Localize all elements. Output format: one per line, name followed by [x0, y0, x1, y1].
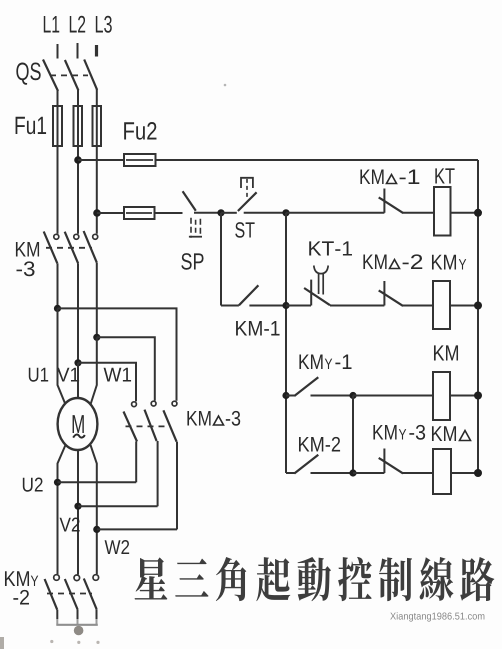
wire U2 to KM-delta-3 pole1 — [58, 481, 137, 483]
wire KMY pole1 to star bus — [56, 610, 58, 619]
wire control row1 left — [97, 212, 126, 214]
wire KM-delta coil to right rail — [451, 472, 478, 474]
button ST blade — [238, 192, 257, 211]
wire self-hold branch down — [220, 213, 222, 306]
node L1 label — [44, 16, 59, 33]
motor M1 letter — [73, 415, 84, 433]
switch QS blade 3 — [84, 60, 97, 90]
contact KM-2 blade — [294, 455, 318, 474]
wire QS to Fu1 pole1 — [57, 90, 59, 106]
wire motor lead W1 — [91, 337, 97, 404]
contactor KMY-2 label KM — [5, 571, 29, 586]
wire W2 to KM-delta-3 pole3 — [97, 528, 177, 530]
contact KM-delta-1 label -1 — [400, 170, 420, 184]
terminal U1 label — [29, 368, 48, 382]
wire through Fu2 bottom — [126, 212, 152, 214]
terminal V2 label — [60, 518, 80, 532]
contact KT-1 blade — [304, 288, 330, 305]
contact KMY-1 label -1 — [335, 355, 351, 369]
wire node to KT-1 — [286, 305, 311, 307]
terminal U2 label — [23, 478, 43, 492]
node junction V2 — [74, 503, 81, 510]
node junction row3 left — [282, 392, 289, 399]
wire phase C down — [96, 146, 98, 234]
contact KM-delta-3 blade 2 — [145, 410, 157, 441]
fuse Fu2 label — [124, 122, 156, 140]
title text 星三角起動控制線路 — [135, 557, 495, 601]
button ST actuator — [241, 178, 253, 188]
coil KMY label Y — [459, 259, 466, 269]
contact KMY-1 label KM — [299, 355, 322, 369]
wire L2 stub — [77, 43, 79, 59]
wire KM-delta-3 pole1 down — [135, 442, 137, 483]
node junction right rail row1 — [474, 209, 482, 217]
wire Fu2 to SP — [155, 212, 183, 214]
button ST label — [235, 222, 254, 238]
node junction U2 — [54, 479, 61, 486]
contact KM-delta-2 blade — [379, 290, 403, 306]
fuse Fu1 element 3 — [93, 106, 102, 146]
coil KT — [434, 187, 451, 236]
contact KT-1 bar — [310, 280, 312, 306]
wire row1 to KM-delta-1 — [286, 212, 384, 214]
wire KM coil to right rail — [450, 395, 478, 397]
contact KMY-2 blade 1 — [45, 579, 58, 610]
corner smudge — [0, 637, 4, 649]
terminal V1 label — [57, 368, 79, 382]
terminal W1 label — [104, 368, 131, 382]
watermark Xiangtang1986.51.com — [390, 612, 484, 621]
contactor KMY-2 label -2 — [13, 590, 29, 605]
coil KM-delta label KM — [432, 426, 456, 441]
contact KM-1 label — [236, 321, 279, 335]
node junction SP-ST — [217, 209, 224, 216]
wire KMY pole2 to star bus — [77, 610, 79, 620]
contact KM-delta-2 label triangle — [390, 260, 400, 269]
coil KM label — [434, 345, 458, 360]
contactor KM-delta-3 label KM — [187, 411, 210, 425]
coil KT label — [435, 168, 454, 183]
wire L1 stub — [57, 44, 59, 59]
contact KM-3 pole2 terminal — [74, 234, 79, 239]
motor M1 tilde — [73, 435, 85, 438]
wire motor lead U1 — [58, 308, 66, 404]
wire pole2 below KM-3 — [77, 263, 79, 363]
wire pole1 below KM-3 — [57, 263, 59, 308]
fuse Fu1 element 2 — [74, 106, 83, 146]
node junction U1 tap — [54, 305, 61, 312]
contact KM-delta-3 blade 3 — [163, 410, 176, 441]
button SP blade — [183, 191, 196, 211]
wire pole3 below KM-3 — [96, 263, 98, 338]
wire top control rail — [78, 159, 478, 161]
fuse Fu2 element bottom — [124, 207, 155, 219]
wire through Fu1 pole2 — [77, 106, 79, 146]
wire motor lead U2 — [58, 445, 66, 574]
node junction W1 tap — [93, 334, 100, 341]
terminal W2 label — [105, 540, 130, 554]
wire through Fu1 pole3 — [96, 106, 98, 146]
contact KM-3 blade 2 — [65, 232, 78, 264]
node junction right rail row4 — [474, 469, 482, 477]
node junction phase C control tap — [93, 209, 101, 217]
wire KT-1 to KM-delta-2 — [330, 305, 384, 307]
contact KM-delta-3 pole3 terminal — [172, 401, 177, 406]
wire KT coil to right rail — [451, 212, 479, 214]
coil KM-delta — [433, 449, 451, 494]
fuse Fu1 label — [16, 117, 46, 134]
switch QS blade 1 — [43, 60, 58, 92]
wire motor lead W2 — [91, 445, 97, 574]
wire KM-delta-3 pole2 down — [157, 441, 159, 506]
contact KM-delta-1 label triangle — [387, 175, 397, 184]
contact KM-3 pole1 terminal — [54, 234, 59, 239]
wire KMY pole3 to star bus — [96, 609, 98, 619]
contact KMY-3 label Y — [399, 429, 406, 439]
wire node to KMY-3 — [353, 472, 384, 474]
contact KMY-2 pole3 terminal — [93, 575, 99, 581]
contact KMY-2 linkage dashed — [47, 593, 92, 595]
node junction right rail row3 — [474, 392, 482, 400]
switch QS blade 2 — [65, 60, 79, 90]
node L3 label — [96, 16, 112, 33]
wire mid branch vertical — [352, 396, 354, 474]
wire KM-delta-2 to KMY coil — [402, 305, 433, 307]
contact KMY-2 pole2 terminal — [74, 575, 80, 581]
contact KM-3 pole3 terminal — [93, 234, 98, 239]
wire star point bus — [56, 624, 98, 626]
ground remnant mark 1 — [50, 640, 53, 643]
node junction V1 tap — [74, 359, 81, 366]
wire KM-delta-3 pole3 down — [176, 442, 178, 530]
contact KMY-2 pole1 terminal — [54, 575, 60, 581]
node junction row2 left — [282, 302, 289, 309]
button ST plunger stem — [246, 179, 248, 199]
button SP plunger stem — [195, 220, 197, 235]
coil KMY — [433, 281, 450, 329]
wire row4 left corner — [286, 472, 295, 474]
wire phase B down — [77, 146, 79, 234]
contact KM-delta-2 bar — [383, 281, 385, 306]
contact KM-delta-1 bar — [383, 189, 385, 213]
contact KMY-2 blade 2 — [65, 579, 78, 610]
contact KMY-3 bar — [383, 449, 385, 474]
contact KM-delta-3 pole1 terminal — [132, 402, 137, 407]
contact KM-delta-3 linkage dashed — [126, 425, 172, 427]
node junction row3 mid — [349, 392, 356, 399]
contact KT-1 delay stem right — [322, 274, 324, 295]
contact KMY-1 label Y — [325, 359, 332, 369]
wire motor lead V1 — [77, 363, 79, 402]
contactor KM-delta-3 label -3 — [226, 411, 240, 426]
node junction row1 — [282, 209, 289, 216]
node junction W2 — [93, 526, 100, 533]
fuse Fu2 element top — [124, 154, 156, 166]
wire QS to Fu1 pole3 — [96, 89, 98, 106]
contactor KM-3 label — [16, 242, 39, 256]
wire through Fu1 pole1 — [57, 106, 59, 146]
contact KMY-3 label KM — [373, 425, 396, 439]
wire U1 tap to KM-delta-3 pole3 — [58, 308, 177, 400]
wire node to KMY-1 — [286, 395, 295, 397]
wire row3 to KM coil — [353, 395, 433, 397]
wire KM-delta-1 to KT coil — [402, 212, 434, 214]
wire W1 tap to KM-delta-3 pole2 — [97, 337, 155, 401]
wire phase A down — [57, 146, 59, 234]
node junction phase B control tap — [74, 156, 82, 164]
wire row branch vertical — [285, 213, 287, 473]
wire KM-1 to node — [249, 305, 286, 307]
contact KM-3 blade 3 — [84, 231, 97, 263]
wire motor lead V2 — [77, 449, 79, 575]
coil KM-delta label triangle — [460, 431, 471, 441]
contactor KMY-2 label Y — [31, 576, 38, 586]
button SP blade to node — [194, 212, 221, 214]
coil KMY label KM — [432, 255, 456, 270]
motor M1 circle — [58, 398, 98, 450]
contact KT-1 label — [309, 241, 352, 255]
wire V1 tap to KM-delta-3 pole1 — [78, 363, 136, 402]
wire KM-2 to node — [311, 472, 354, 474]
wire self-hold branch corner — [221, 305, 239, 307]
contact KT-1 delay cup — [314, 266, 328, 274]
contactor KM-3 label suffix — [16, 261, 34, 276]
wire right rail — [477, 160, 479, 473]
contact KM-delta-3 pole2 terminal — [151, 401, 156, 406]
contact KM-delta-1 label KM — [360, 170, 383, 184]
switch QS linkage dashed — [50, 74, 88, 76]
contact KM-delta-1 blade — [379, 197, 403, 213]
button SP label — [181, 253, 203, 270]
node junction row4 mid — [349, 469, 356, 476]
node L2 label — [70, 16, 85, 33]
contactor KM-delta-3 label triangle — [214, 416, 224, 425]
wire KMY-3 to KM-delta coil — [402, 472, 433, 474]
wire KMY coil to right rail — [450, 305, 478, 307]
button SP plunger side right — [199, 219, 201, 237]
contact KM-3 linkage dashed — [46, 247, 92, 249]
contact KM-delta-3 blade 1 — [124, 412, 138, 442]
node star point — [74, 626, 84, 636]
ground remnant mark 2 — [77, 641, 80, 644]
contact KM-3 blade 1 — [44, 232, 58, 264]
coil KM — [433, 372, 450, 420]
fuse Fu1 element 1 — [53, 106, 62, 146]
wire V2 to KM-delta-3 pole2 — [78, 505, 158, 507]
button SP plunger side left — [190, 218, 192, 238]
node junction right rail row2 — [474, 302, 482, 310]
contact KMY-3 label -3 — [409, 425, 425, 440]
wire L3 stub — [95, 45, 98, 57]
wire QS to Fu1 pole2 — [77, 90, 79, 106]
switch QS label — [16, 63, 40, 85]
ground remnant mark 3 — [96, 641, 99, 644]
contact KT-1 delay stem left — [318, 274, 320, 294]
wire ST to node2 — [244, 212, 286, 214]
contact KM-2 label — [299, 437, 340, 452]
contact KM-delta-2 label -2 — [403, 254, 423, 269]
speck — [224, 84, 227, 87]
contact KMY-2 blade 3 — [84, 579, 97, 610]
button SP plunger bar — [189, 236, 202, 238]
wire through Fu2 top — [126, 159, 153, 161]
contact KM-delta-2 label KM — [363, 255, 386, 269]
wire KMY-1 to node — [311, 395, 354, 397]
wire node to ST — [221, 212, 237, 214]
contact KMY-3 blade — [379, 458, 403, 474]
contact KMY-1 blade — [294, 377, 318, 396]
contact KM-1 blade — [239, 285, 259, 305]
